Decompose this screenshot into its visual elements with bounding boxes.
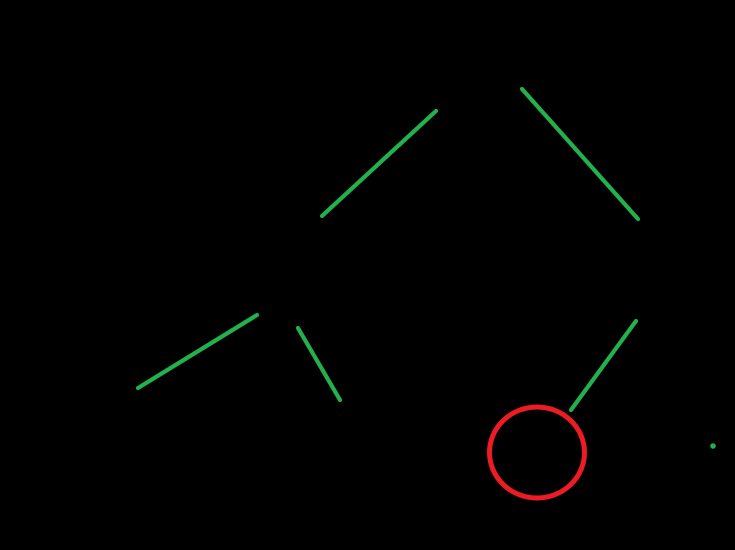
wire: tree edge right child to circled node [571,321,636,410]
node: red circle annotation [490,407,585,498]
wire: tree edge left child to its left child [138,315,257,388]
wire: tree edge left child to its right child [298,328,340,400]
node: small green dot [710,443,716,449]
wire: tree edge root to right child [522,89,638,219]
wire: tree edge root to left child [322,111,436,216]
